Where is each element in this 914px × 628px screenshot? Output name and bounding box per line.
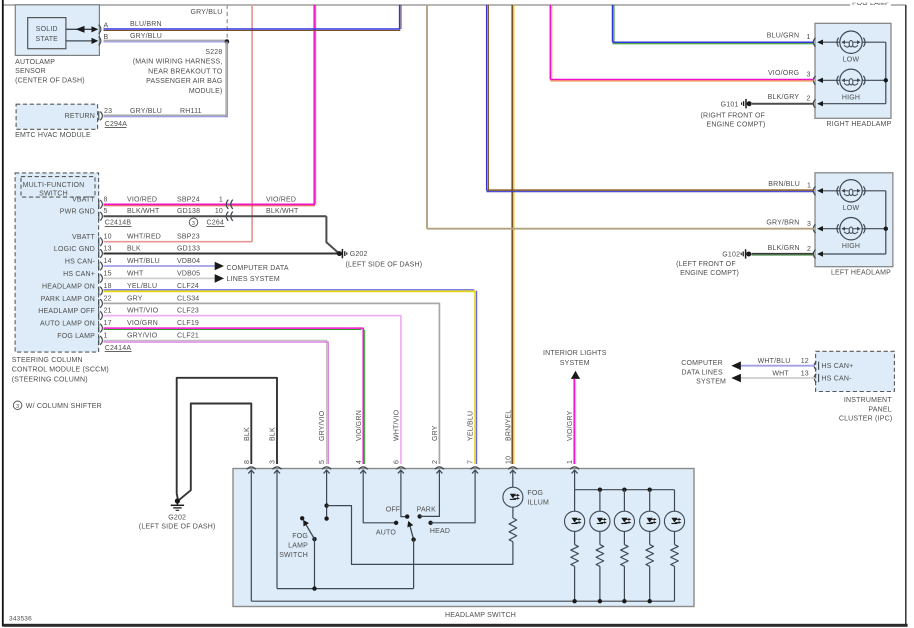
wire BLU/GRN to right headlamp pin 1 xyxy=(613,41,815,43)
wire GRY CLS34 from pin 22 to switch pin 2 xyxy=(104,303,440,464)
page bottom border bar xyxy=(4,624,908,627)
wire BLK/GRN to left headlamp pin 2 xyxy=(752,253,814,255)
switch pin 5 connector (GRY/VIO) xyxy=(322,467,331,469)
switch pin 10 connector (BRN/YEL) xyxy=(508,467,517,469)
svg-text:LOW: LOW xyxy=(843,56,860,63)
wire BLK/GRY to right headlamp pin 2 xyxy=(752,103,814,105)
wire WHT VDB05 from pin 15 xyxy=(104,277,216,279)
svg-text:17: 17 xyxy=(104,320,112,327)
switch pin 7 connector (YEL/BLU) xyxy=(471,467,480,469)
EMTC pin 23 connector symbol xyxy=(98,111,100,120)
svg-text:(LEFT FRONT OF: (LEFT FRONT OF xyxy=(676,261,736,268)
svg-text:3: 3 xyxy=(16,404,19,410)
right headlamp pin 1 connector xyxy=(813,38,815,47)
svg-text:WHT/VIO: WHT/VIO xyxy=(394,409,401,441)
left headlamp pin 1 connector xyxy=(813,186,815,195)
SCCM module box xyxy=(15,173,99,352)
svg-text:8: 8 xyxy=(104,196,108,203)
svg-text:(STEERING COLUMN): (STEERING COLUMN) xyxy=(12,376,88,383)
EMTC HVAC module box (RETURN) xyxy=(16,104,98,129)
wire BLK/WHT GD138 from pin 5 to G202 xyxy=(104,215,327,217)
wire WHT/VIO CLF23 from pin 21 to switch pin 6 xyxy=(104,316,401,464)
svg-text:VDB04: VDB04 xyxy=(177,258,200,265)
svg-text:23: 23 xyxy=(104,108,112,115)
SCCM pin 13 LOGIC GND connector symbol xyxy=(98,249,100,258)
wire BLK GD133 from pin 13 to G202 xyxy=(104,252,340,254)
svg-text:VDB05: VDB05 xyxy=(177,270,200,277)
svg-text:WHT/BLU: WHT/BLU xyxy=(127,258,160,265)
illumination LED 4 with resistor xyxy=(649,490,651,512)
svg-text:C264: C264 xyxy=(207,220,225,227)
svg-text:BLK/WHT: BLK/WHT xyxy=(266,208,299,215)
svg-text:12: 12 xyxy=(801,358,809,365)
page left border xyxy=(2,0,4,627)
illumination LED 5 with resistor xyxy=(674,490,676,512)
svg-text:SBP24: SBP24 xyxy=(177,196,200,203)
svg-text:ENGINE COMPT): ENGINE COMPT) xyxy=(707,122,766,129)
svg-text:(CENTER OF DASH): (CENTER OF DASH) xyxy=(15,77,85,84)
svg-text:(LEFT SIDE OF DASH): (LEFT SIDE OF DASH) xyxy=(346,261,423,268)
right headlamp HIGH beam bulb xyxy=(823,79,840,81)
fog lamp switch arm wire to rail xyxy=(314,539,316,589)
svg-text:22: 22 xyxy=(104,295,112,302)
svg-text:HEAD: HEAD xyxy=(430,528,450,535)
svg-text:WHT/RED: WHT/RED xyxy=(127,234,161,241)
svg-text:BLK: BLK xyxy=(244,427,251,441)
svg-text:AUTO: AUTO xyxy=(376,529,396,536)
svg-text:DATA LINES: DATA LINES xyxy=(681,370,723,377)
arrow to computer data lines (HS CAN-) xyxy=(215,262,224,271)
SCCM pin 17 AUTO LAMP ON connector symbol xyxy=(98,324,100,333)
switch pin 2 connector (GRY) xyxy=(435,467,444,469)
svg-text:(MAIN WIRING HARNESS,: (MAIN WIRING HARNESS, xyxy=(133,59,223,66)
svg-text:CLF21: CLF21 xyxy=(177,332,199,339)
svg-text:GRY/BLU: GRY/BLU xyxy=(190,9,222,16)
svg-text:SOLID: SOLID xyxy=(36,26,58,33)
svg-text:5: 5 xyxy=(319,460,326,464)
svg-text:BLK/GRY: BLK/GRY xyxy=(768,94,800,101)
wire BRN/BLU to left headlamp pin 1 xyxy=(487,189,814,191)
svg-text:RIGHT HEADLAMP: RIGHT HEADLAMP xyxy=(827,121,892,128)
wire BLU/BRN vertical at top (autolamp sensor pin A) xyxy=(399,5,401,29)
switch pin 8 connector (BLK) xyxy=(247,467,256,469)
switch pin 5 wire down to fog switch contact xyxy=(326,470,328,518)
autolamp sensor module box xyxy=(15,5,99,56)
illumination LED top rail xyxy=(575,489,675,491)
wire VIO/RED SBP24 from pin 8 to C264 xyxy=(104,203,316,205)
svg-text:HS CAN-: HS CAN- xyxy=(822,376,853,383)
svg-text:1: 1 xyxy=(807,183,811,190)
switch pin 4 wire to AUTO contact xyxy=(363,470,396,523)
svg-text:BLK: BLK xyxy=(270,427,277,441)
left headlamp LOW beam bulb xyxy=(823,190,840,192)
illumination LED 1 with resistor xyxy=(574,490,576,512)
wire GRY/BLU RH111 horizontal to EMTC pin 23 xyxy=(104,114,228,116)
left headlamp HIGH beam bulb xyxy=(823,228,840,230)
svg-text:GRY/BLU: GRY/BLU xyxy=(130,33,162,40)
svg-text:CLF19: CLF19 xyxy=(177,320,199,327)
left headlamp pin 3 connector xyxy=(813,224,815,233)
svg-text:13: 13 xyxy=(801,371,809,378)
svg-text:4: 4 xyxy=(356,460,363,464)
svg-text:VIO/RED: VIO/RED xyxy=(127,196,157,203)
svg-text:(LEFT SIDE OF DASH): (LEFT SIDE OF DASH) xyxy=(139,524,216,531)
svg-text:VIO/ORG: VIO/ORG xyxy=(768,70,799,77)
svg-text:RH111: RH111 xyxy=(180,108,202,115)
ground G202 (left side of dash) xyxy=(337,251,342,256)
wire GRY/BRN to left headlamp pin 3 xyxy=(427,228,814,230)
svg-text:BLU/BRN: BLU/BRN xyxy=(130,21,162,28)
svg-text:LAMP: LAMP xyxy=(288,543,308,550)
rotary AUTO contact xyxy=(394,521,398,525)
fog lamp switch arm xyxy=(312,537,316,541)
wire GRY/BLU vertical S228 down to RH111 xyxy=(225,42,227,117)
svg-text:2: 2 xyxy=(807,246,811,253)
svg-text:EMTC HVAC MODULE: EMTC HVAC MODULE xyxy=(15,132,91,139)
SCCM pin 18 HEADLAMP ON connector symbol xyxy=(98,287,100,296)
switch pin 3 wire to fog/rotary rail xyxy=(276,470,278,588)
wire GRY/BLU pin B horizontal to S228 xyxy=(104,39,228,41)
wire BLK from switch pin 3 to G202 xyxy=(177,378,277,500)
SCCM pin 15 HS CAN+ connector symbol xyxy=(98,274,100,283)
svg-text:G101: G101 xyxy=(721,101,739,108)
wire WHT to IPC pin 13 xyxy=(741,377,815,379)
wire GRY/VIO CLF21 from pin 1 to switch pin 5 xyxy=(104,340,327,464)
svg-text:HS CAN+: HS CAN+ xyxy=(822,363,854,370)
svg-text:3: 3 xyxy=(807,71,811,78)
svg-text:AUTOLAMP: AUTOLAMP xyxy=(15,59,55,66)
page top border line (right of FOG LAMP label) xyxy=(891,4,906,6)
svg-text:(RIGHT FRONT OF: (RIGHT FRONT OF xyxy=(701,112,766,119)
svg-text:GD138: GD138 xyxy=(177,208,200,215)
svg-text:SWITCH: SWITCH xyxy=(39,191,68,198)
right headlamp internal common wire xyxy=(885,42,887,103)
SCCM pin 21 HEADLAMP OFF connector symbol xyxy=(98,311,100,320)
page top border line (left of FOG LAMP label) xyxy=(3,4,850,6)
SCCM pin 8 VBATT connector symbol xyxy=(98,200,100,209)
svg-text:SYSTEM: SYSTEM xyxy=(560,360,590,367)
svg-text:STATE: STATE xyxy=(36,36,59,43)
svg-text:GD133: GD133 xyxy=(177,246,200,253)
svg-text:S228: S228 xyxy=(205,49,222,56)
switch bottom ground rail xyxy=(251,600,674,602)
svg-text:3: 3 xyxy=(270,460,277,464)
in-line connector C264 pin 1 xyxy=(226,200,228,209)
svg-text:SBP23: SBP23 xyxy=(177,234,200,241)
svg-text:PANEL: PANEL xyxy=(868,407,891,414)
svg-text:10: 10 xyxy=(215,208,223,215)
rotary switch arm xyxy=(410,525,414,540)
svg-text:NEAR BREAKOUT TO: NEAR BREAKOUT TO xyxy=(148,68,223,75)
svg-text:FOG: FOG xyxy=(292,533,308,540)
SCCM pin 1 FOG LAMP connector symbol xyxy=(98,336,100,345)
wire WHT/RED SBP23 from pin 10 turning up xyxy=(104,241,253,243)
svg-text:HIGH: HIGH xyxy=(842,243,860,250)
rotary PARK contact to switch pin 2 xyxy=(418,514,422,518)
headlamp switch box xyxy=(233,469,694,607)
svg-text:HS CAN+: HS CAN+ xyxy=(63,271,95,278)
svg-text:1: 1 xyxy=(807,34,811,41)
splice S228 xyxy=(225,39,230,44)
svg-text:PARK: PARK xyxy=(417,507,436,514)
svg-text:GRY/BRN: GRY/BRN xyxy=(766,220,799,227)
svg-text:CLS34: CLS34 xyxy=(177,295,199,302)
svg-text:PARK LAMP ON: PARK LAMP ON xyxy=(41,296,95,303)
svg-text:343536: 343536 xyxy=(9,616,32,623)
svg-text:COMPUTER: COMPUTER xyxy=(681,360,723,367)
svg-text:STEERING COLUMN: STEERING COLUMN xyxy=(12,357,83,364)
svg-text:CONTROL MODULE (SCCM): CONTROL MODULE (SCCM) xyxy=(12,367,109,374)
svg-text:WHT/BLU: WHT/BLU xyxy=(758,358,791,365)
svg-text:COMPUTER DATA: COMPUTER DATA xyxy=(227,265,289,272)
left headlamp box xyxy=(815,173,893,267)
svg-text:AUTO LAMP ON: AUTO LAMP ON xyxy=(40,321,95,328)
svg-text:PWR GND: PWR GND xyxy=(60,209,95,216)
wire WHT/BLU VDB04 from pin 14 xyxy=(104,265,216,267)
switch pin 10 wire to fog illumination LED xyxy=(512,470,514,487)
svg-text:2: 2 xyxy=(432,460,439,464)
svg-text:G102: G102 xyxy=(722,252,740,259)
svg-text:C2414A: C2414A xyxy=(105,345,132,352)
svg-text:WHT: WHT xyxy=(127,270,144,277)
left headlamp pin 2 connector xyxy=(813,250,815,259)
svg-text:INSTRUMENT: INSTRUMENT xyxy=(844,397,892,404)
svg-text:FOG: FOG xyxy=(527,490,543,497)
svg-text:GRY/VIO: GRY/VIO xyxy=(319,410,326,441)
svg-text:HEADLAMP OFF: HEADLAMP OFF xyxy=(38,308,95,315)
svg-text:15: 15 xyxy=(104,270,112,277)
fog illumination LED xyxy=(503,487,523,507)
svg-text:8: 8 xyxy=(244,460,251,464)
svg-text:CLF23: CLF23 xyxy=(177,308,199,315)
illumination LED 3 with resistor xyxy=(623,490,625,512)
wire VIO/GRY from interior lights to switch pin 1 xyxy=(573,379,575,464)
svg-text:1: 1 xyxy=(567,460,574,464)
svg-text:C294A: C294A xyxy=(105,121,128,128)
svg-text:6: 6 xyxy=(394,460,401,464)
wire BLU/BRN pin A horizontal xyxy=(104,28,401,30)
switch pin 1 wire to illumination rail xyxy=(574,470,576,490)
svg-text:C2414B: C2414B xyxy=(105,220,132,227)
right headlamp box xyxy=(815,23,891,118)
wire VIO/RED vertical from top to SCCM pin 8 row xyxy=(313,5,315,205)
svg-text:3: 3 xyxy=(192,221,195,227)
svg-text:CLF24: CLF24 xyxy=(177,283,199,290)
svg-text:SWITCH: SWITCH xyxy=(279,552,308,559)
rotary switch common pivot xyxy=(405,514,409,518)
svg-text:MULTI-FUNCTION: MULTI-FUNCTION xyxy=(23,182,85,189)
solid state inner box xyxy=(28,18,66,49)
svg-text:G202: G202 xyxy=(168,515,186,522)
svg-text:13: 13 xyxy=(104,246,112,253)
wire VIO/GRN CLF19 from pin 17 to switch pin 4 xyxy=(104,328,364,464)
svg-text:GRY: GRY xyxy=(127,295,143,302)
wire WHT/RED vertical from top to SCCM pin 10 row xyxy=(251,5,253,242)
wire GRY/BRN vertical from top toward left headlamp xyxy=(426,5,428,229)
rotary HEAD contact to switch pin 7 xyxy=(428,521,432,525)
footnote circled 3 W/ COLUMN SHIFTER xyxy=(13,401,22,410)
svg-text:VIO/GRN: VIO/GRN xyxy=(356,410,363,441)
switch pin 3 connector (BLK) xyxy=(272,467,281,469)
svg-text:SENSOR: SENSOR xyxy=(15,68,46,75)
fog illumination resistor xyxy=(512,507,514,518)
svg-text:HEADLAMP ON: HEADLAMP ON xyxy=(42,283,95,290)
switch fog/rotary common rail xyxy=(277,588,414,590)
right headlamp pin 2 connector xyxy=(813,99,815,108)
svg-text:ENGINE COMPT): ENGINE COMPT) xyxy=(680,270,739,277)
svg-text:10: 10 xyxy=(104,234,112,241)
ground G101 (right front of engine compt) xyxy=(747,101,752,106)
svg-text:14: 14 xyxy=(104,258,112,265)
right headlamp LOW beam bulb xyxy=(823,41,840,43)
svg-text:RETURN: RETURN xyxy=(65,113,95,120)
svg-text:YEL/BLU: YEL/BLU xyxy=(127,283,157,290)
svg-text:HEADLAMP SWITCH: HEADLAMP SWITCH xyxy=(445,612,516,619)
connector C264 note circled 3 xyxy=(189,218,198,227)
instrument panel cluster box xyxy=(816,351,895,391)
switch pin 8 wire to bottom rail xyxy=(250,470,252,601)
svg-text:HS CAN-: HS CAN- xyxy=(65,258,96,265)
SCCM pin 14 HS CAN- connector symbol xyxy=(98,262,100,271)
svg-text:WHT/VIO: WHT/VIO xyxy=(127,308,159,315)
svg-text:ILLUM: ILLUM xyxy=(527,500,549,507)
ground G202 (left side of dash) at bottom xyxy=(175,498,180,503)
svg-text:LOW: LOW xyxy=(843,205,860,212)
svg-text:GRY/VIO: GRY/VIO xyxy=(127,332,158,339)
svg-text:VIO/GRY: VIO/GRY xyxy=(567,410,574,441)
wire BLU/GRN vertical from top toward right headlamp xyxy=(612,5,614,43)
svg-text:SYSTEM: SYSTEM xyxy=(696,378,726,385)
arrow to computer data lines (HS CAN+) xyxy=(215,274,224,283)
svg-text:LINES SYSTEM: LINES SYSTEM xyxy=(227,276,280,283)
autolamp sensor internal lead pin A with arrow xyxy=(66,28,97,30)
svg-text:BLK: BLK xyxy=(127,246,141,253)
svg-text:BLK/GRN: BLK/GRN xyxy=(768,245,800,252)
svg-text:FOG LAMP: FOG LAMP xyxy=(57,333,95,340)
svg-text:BRN/YEL: BRN/YEL xyxy=(505,410,512,441)
right headlamp pin 3 connector xyxy=(813,76,815,85)
svg-text:10: 10 xyxy=(505,456,512,464)
switch pin 1 connector (VIO/GRY) xyxy=(570,467,579,469)
wire GRY/BLU dashed off-page continuation above S228 xyxy=(226,5,228,42)
autolamp sensor internal lead pin B xyxy=(66,40,97,42)
in-line connector C264 pin 10 xyxy=(226,212,228,221)
switch pin 6 wire to rotary common xyxy=(401,470,407,516)
wire BRN/BLU vertical from top toward left headlamp xyxy=(486,5,488,191)
IPC pin 13 connector xyxy=(814,374,816,383)
arrow to computer data lines from IPC pin 12 xyxy=(731,361,741,370)
page right border xyxy=(905,5,907,625)
svg-text:BLK/WHT: BLK/WHT xyxy=(127,208,160,215)
wire BLK from switch pin 8 to G202 xyxy=(179,404,252,501)
svg-text:VIO/RED: VIO/RED xyxy=(266,196,296,203)
svg-text:BLU/GRN: BLU/GRN xyxy=(767,33,800,40)
svg-text:GRY: GRY xyxy=(432,425,439,441)
svg-text:MODULE): MODULE) xyxy=(189,88,223,95)
left headlamp internal common wire xyxy=(885,191,887,254)
svg-text:VIO/GRN: VIO/GRN xyxy=(127,320,158,327)
svg-text:VBATT: VBATT xyxy=(72,197,96,204)
svg-text:BRN/BLU: BRN/BLU xyxy=(768,181,800,188)
svg-text:3: 3 xyxy=(807,221,811,228)
svg-text:LEFT HEADLAMP: LEFT HEADLAMP xyxy=(831,269,891,276)
svg-text:OFF: OFF xyxy=(386,507,401,514)
svg-text:CLUSTER (IPC): CLUSTER (IPC) xyxy=(839,415,893,422)
switch pin 4 connector (VIO/GRN) xyxy=(359,467,368,469)
svg-text:YEL/BLU: YEL/BLU xyxy=(468,411,475,441)
svg-text:W/ COLUMN SHIFTER: W/ COLUMN SHIFTER xyxy=(26,403,102,410)
switch pin 6 connector (WHT/VIO) xyxy=(396,467,405,469)
svg-text:18: 18 xyxy=(104,283,112,290)
svg-text:INTERIOR LIGHTS: INTERIOR LIGHTS xyxy=(543,350,607,357)
svg-text:7: 7 xyxy=(468,460,475,464)
SCCM pin 22 PARK LAMP ON connector symbol xyxy=(98,299,100,308)
ground G102 (left front of engine compt) xyxy=(746,252,751,257)
wire VIO/ORG vertical from top toward right headlamp xyxy=(549,5,551,80)
arrow to computer data lines from IPC pin 13 xyxy=(731,374,741,383)
SCCM pin 5 PWR GND connector symbol xyxy=(98,212,100,221)
IPC pin 12 connector xyxy=(814,361,816,370)
rotary arm wire to rail xyxy=(413,540,415,589)
svg-text:1: 1 xyxy=(219,196,223,203)
wire BRN/YEL vertical from top to headlamp switch pin 10 xyxy=(511,5,513,464)
svg-text:VBATT: VBATT xyxy=(72,234,96,241)
wire YEL/BLU CLF24 from pin 18 to switch pin 7 xyxy=(104,290,476,292)
arrow up to interior lights system xyxy=(571,371,580,379)
branch from pin 5 to fog illumination resistor xyxy=(327,506,513,565)
illumination LED 2 with resistor xyxy=(599,490,601,512)
wire WHT/BLU to IPC pin 12 xyxy=(741,365,815,367)
svg-text:WHT: WHT xyxy=(772,371,789,378)
SCCM pin 10 VBATT connector symbol xyxy=(98,237,100,246)
svg-text:1: 1 xyxy=(104,332,108,339)
svg-text:21: 21 xyxy=(104,308,112,315)
fog lamp switch contact xyxy=(300,516,304,520)
svg-text:5: 5 xyxy=(104,208,108,215)
svg-text:PASSENGER AIR BAG: PASSENGER AIR BAG xyxy=(146,78,222,85)
multi-function switch inner box xyxy=(21,177,95,198)
svg-text:2: 2 xyxy=(807,95,811,102)
svg-text:G202: G202 xyxy=(350,251,368,258)
svg-text:LOGIC GND: LOGIC GND xyxy=(54,246,95,253)
svg-text:HIGH: HIGH xyxy=(842,95,860,102)
wire VIO/ORG to right headlamp pin 3 xyxy=(550,79,814,81)
svg-text:GRY/BLU: GRY/BLU xyxy=(130,108,162,115)
